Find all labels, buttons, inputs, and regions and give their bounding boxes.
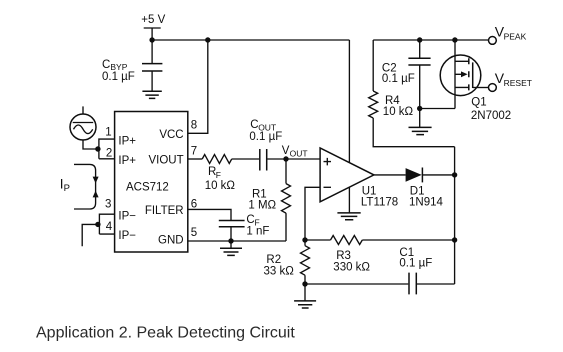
svg-text:R3: R3 — [336, 250, 351, 262]
node CF ground junction — [228, 238, 233, 243]
resistor RF — [202, 155, 235, 193]
ground below CBYP — [142, 91, 161, 98]
node R2 bottom junction — [302, 281, 307, 286]
svg-text:LT1178: LT1178 — [361, 196, 398, 208]
svg-text:PEAK: PEAK — [504, 31, 527, 41]
terminal VRESET — [489, 70, 532, 91]
svg-text:Application 2. Peak Detecting: Application 2. Peak Detecting Circuit — [36, 325, 295, 342]
svg-text:33 kΩ: 33 kΩ — [264, 265, 295, 277]
node source to IP+ pins — [95, 146, 100, 151]
svg-text:0.1 µF: 0.1 µF — [249, 131, 282, 143]
svg-text:FILTER: FILTER — [145, 205, 184, 217]
svg-text:1: 1 — [105, 126, 111, 138]
svg-text:V: V — [282, 145, 290, 157]
svg-text:P: P — [64, 183, 70, 194]
ground below R2 — [294, 284, 316, 308]
wire VIOUT pin 7 lead — [188, 158, 202, 160]
wire C2 bottom to Q1 source — [420, 108, 455, 110]
node VOUT — [282, 145, 308, 162]
pin number 3 — [105, 198, 111, 210]
resistor R4 — [369, 40, 455, 147]
wire VPEAK rail — [373, 39, 488, 41]
wire +5V rail — [152, 39, 349, 41]
node Q1 drain junction — [452, 37, 457, 42]
IP current loop arrow — [60, 164, 99, 209]
svg-text:VIOUT: VIOUT — [148, 154, 183, 166]
svg-text:C: C — [102, 59, 110, 71]
svg-text:+5 V: +5 V — [141, 14, 165, 26]
ground below CF — [220, 241, 242, 255]
pin number 1 — [105, 126, 111, 138]
svg-text:0.1 µF: 0.1 µF — [102, 71, 135, 83]
wire C1 left — [305, 283, 408, 285]
capacitor COUT — [249, 119, 282, 171]
svg-text:ACS712: ACS712 — [126, 182, 169, 194]
svg-text:2: 2 — [106, 148, 112, 160]
pin number 4 — [106, 221, 113, 233]
pin number 8 — [191, 120, 197, 132]
svg-text:0.1 µF: 0.1 µF — [399, 258, 432, 270]
pin number 7 — [191, 146, 197, 158]
wire IP- external lead — [82, 224, 98, 246]
pin number 5 — [191, 227, 197, 239]
+5V supply symbol — [141, 14, 165, 40]
svg-text:1 nF: 1 nF — [246, 225, 269, 237]
svg-text:2N7002: 2N7002 — [471, 110, 511, 122]
op-amp U1 — [320, 148, 398, 208]
wire RF to COUT — [232, 158, 259, 160]
wire C1 right to rail — [417, 283, 455, 285]
svg-text:R4: R4 — [385, 95, 400, 107]
ground below op-amp — [337, 213, 360, 220]
terminal VPEAK — [489, 23, 527, 44]
wire op-amp output — [374, 174, 406, 176]
transistor Q1 — [440, 40, 511, 122]
svg-text:F: F — [216, 170, 221, 180]
svg-text:1N914: 1N914 — [409, 196, 443, 208]
svg-text:10 kΩ: 10 kΩ — [205, 180, 236, 192]
diode D1 — [406, 168, 455, 209]
wire FILTER pin 6 to CF — [188, 209, 231, 220]
wire VOUT to op-amp + input — [286, 158, 320, 160]
node VCC rail junction — [205, 37, 210, 42]
capacitor CF — [219, 214, 270, 241]
svg-text:7: 7 — [191, 146, 197, 158]
node D1 cathode junction — [452, 172, 457, 177]
wire R3 right to rail — [362, 239, 454, 241]
svg-text:3: 3 — [105, 198, 111, 210]
wire op-amp V- to ground — [348, 187, 350, 213]
resistor R1 — [248, 159, 290, 241]
svg-text:330 kΩ: 330 kΩ — [333, 261, 370, 273]
node R3 rail junction — [452, 237, 457, 242]
svg-text:R2: R2 — [266, 254, 281, 266]
node inverting input junction — [302, 237, 307, 242]
pin number 2 — [106, 148, 112, 160]
svg-text:RESET: RESET — [504, 78, 532, 88]
node IP- pins junction — [95, 222, 100, 227]
pin number 6 — [191, 198, 197, 210]
svg-text:IP−: IP− — [118, 230, 136, 242]
resistor R3 — [331, 236, 371, 274]
svg-text:10 kΩ: 10 kΩ — [383, 106, 414, 118]
svg-text:GND: GND — [158, 235, 184, 247]
svg-text:OUT: OUT — [290, 149, 308, 159]
svg-text:1 MΩ: 1 MΩ — [248, 199, 276, 211]
wire VCC pin 8 to rail — [188, 40, 208, 133]
AC source — [70, 106, 98, 149]
capacitor CBYP — [102, 40, 162, 91]
ground below C2 — [409, 109, 432, 135]
wire R3 left — [305, 239, 331, 241]
wire IP+ pin tie (pins 1-2) — [99, 139, 115, 159]
svg-text:0.1 µF: 0.1 µF — [382, 73, 415, 85]
node C2 bottom junction — [417, 106, 422, 111]
wire op-amp V+ to +5V rail — [348, 40, 350, 163]
capacitor C1 — [399, 247, 432, 294]
wire op-amp - input feedback — [305, 187, 320, 240]
svg-text:IP+: IP+ — [118, 135, 136, 147]
wire COUT to VOUT node — [267, 158, 286, 160]
wire IP- pin tie (pins 3-4) — [99, 214, 114, 234]
svg-text:8: 8 — [191, 120, 197, 132]
svg-text:IP+: IP+ — [118, 155, 136, 167]
svg-text:6: 6 — [191, 198, 197, 210]
svg-text:5: 5 — [191, 227, 197, 239]
svg-text:IP−: IP− — [118, 210, 136, 222]
wire right feedback rail — [454, 147, 456, 284]
svg-text:Q1: Q1 — [471, 97, 486, 109]
node +5V/CBYP junction — [149, 37, 154, 42]
IC U ACS712 body — [115, 112, 188, 253]
svg-text:4: 4 — [106, 221, 113, 233]
node C2 top junction — [417, 37, 422, 42]
wire GND pin 5 rail — [188, 240, 286, 242]
resistor R2 — [264, 240, 310, 284]
caption — [36, 325, 295, 342]
svg-text:VCC: VCC — [159, 129, 183, 141]
capacitor C2 — [382, 40, 431, 109]
